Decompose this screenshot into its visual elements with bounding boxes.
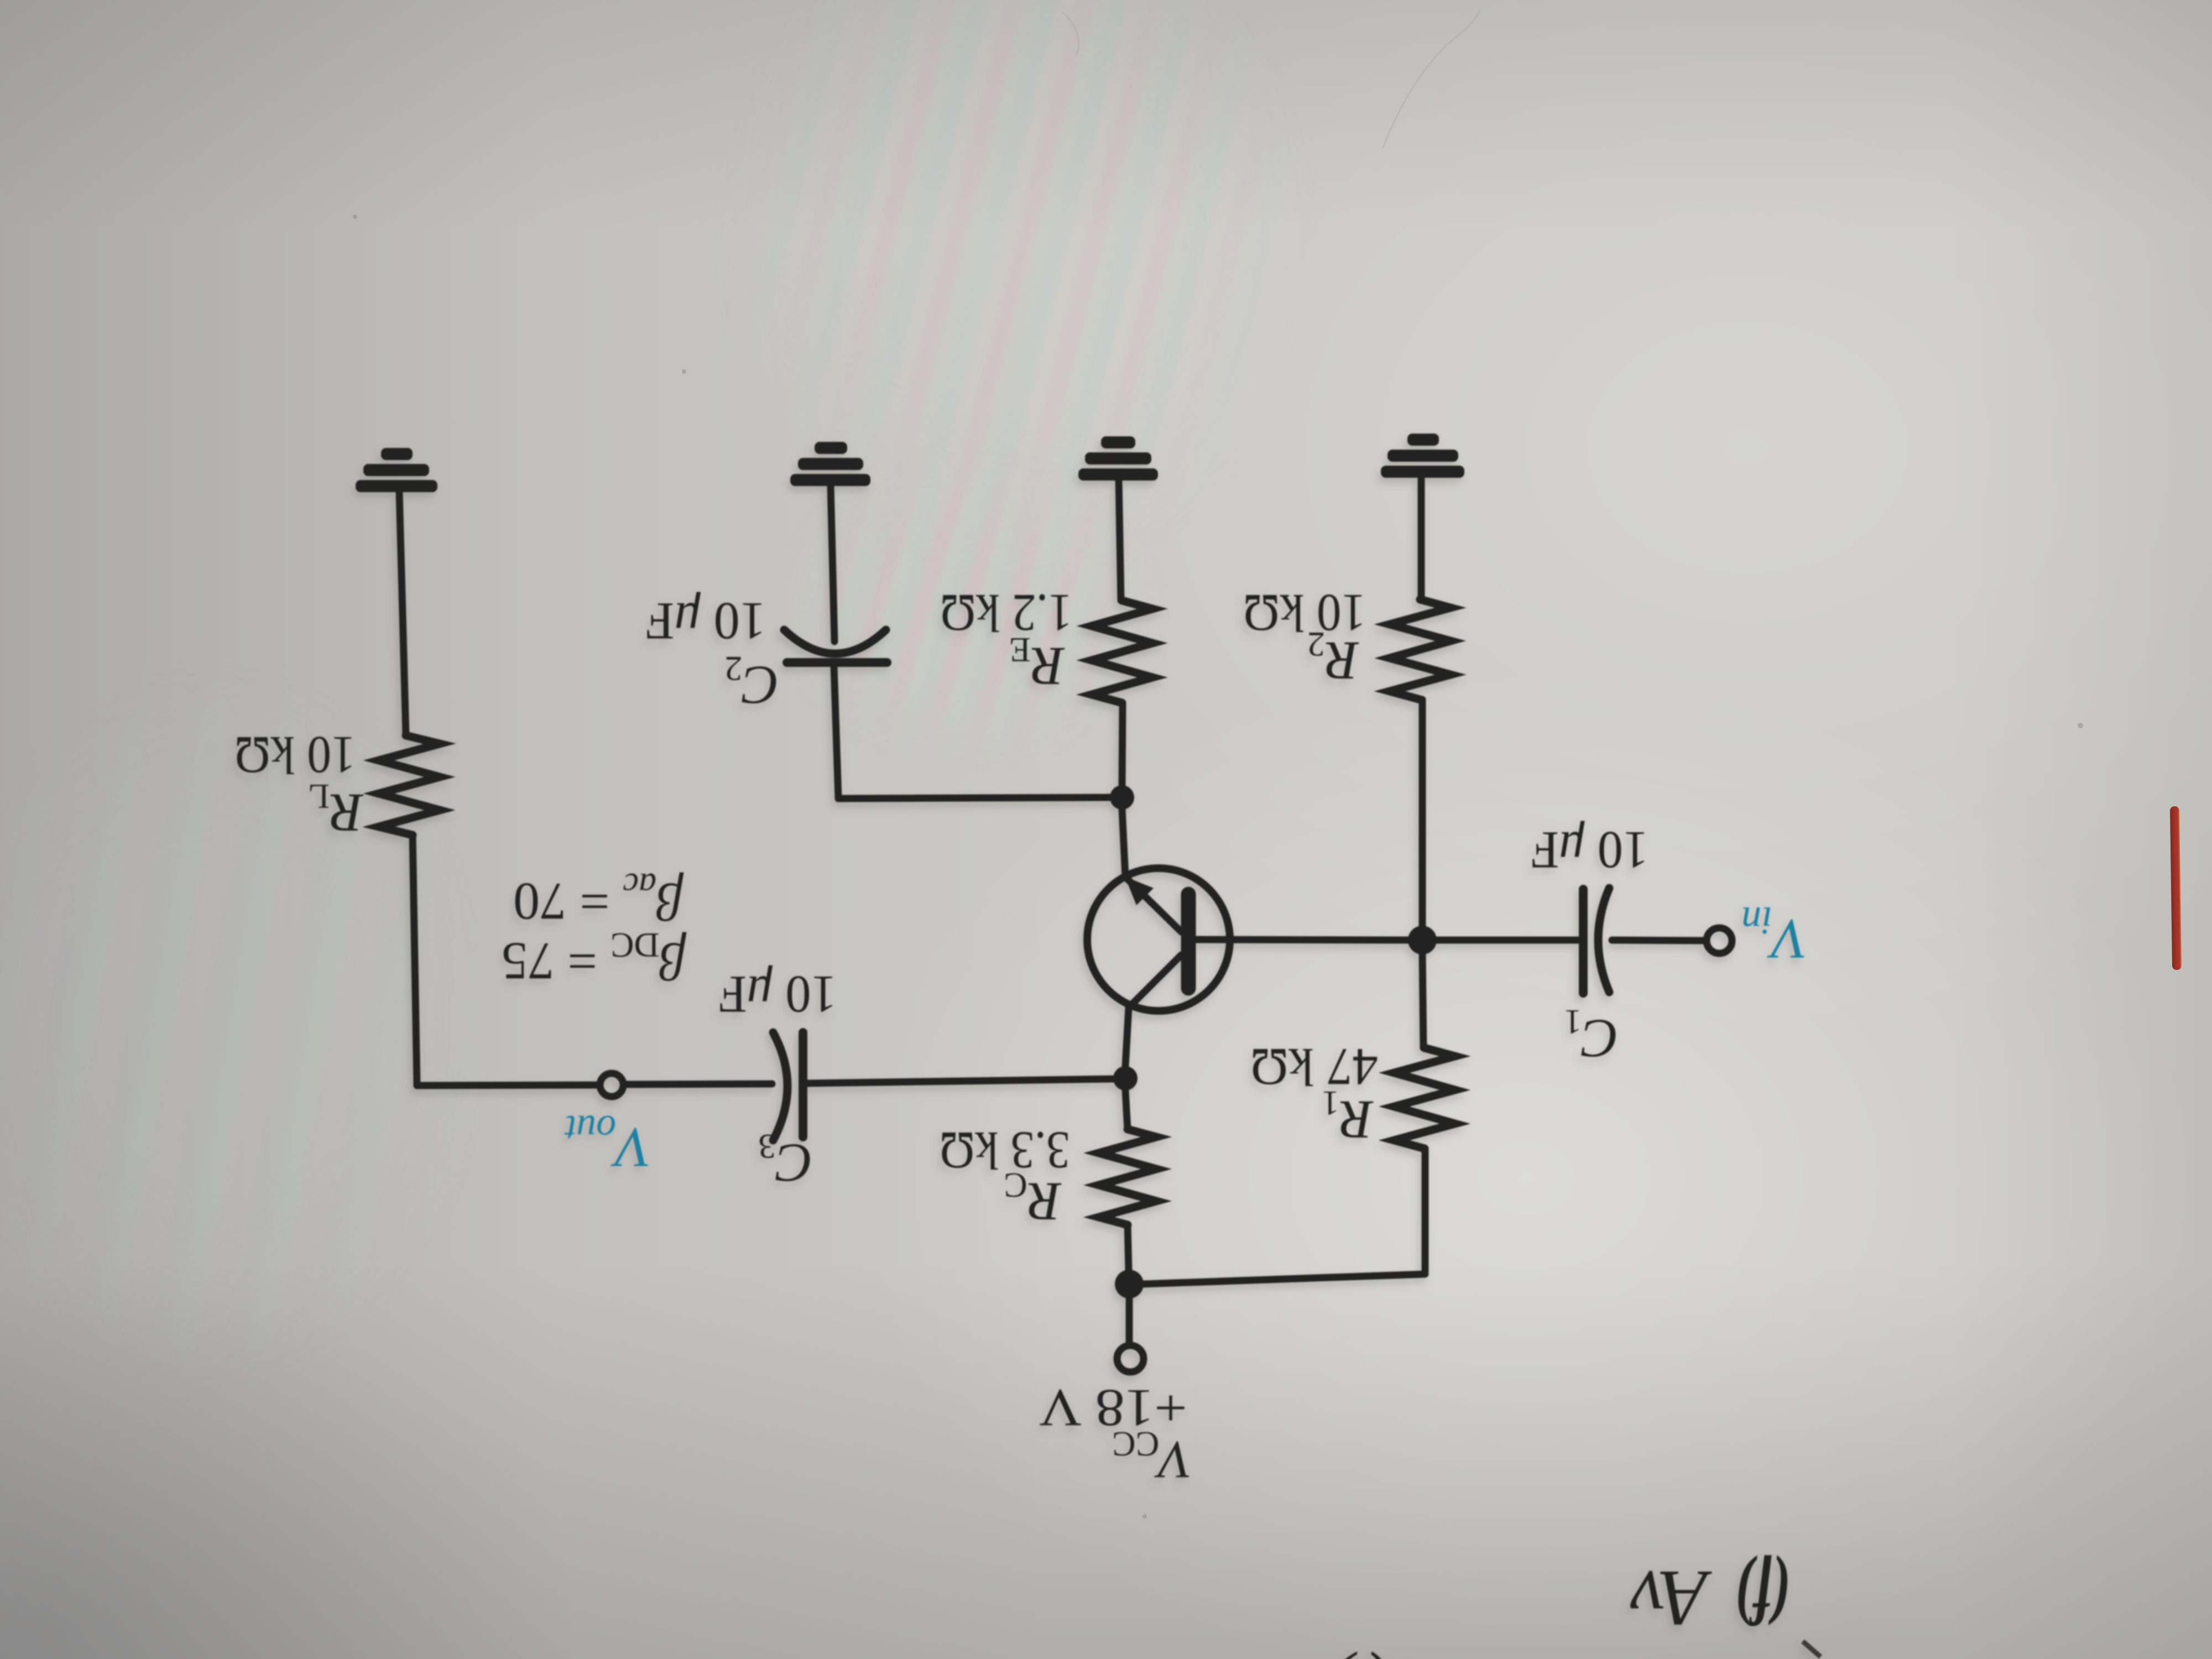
svg-text:(: ( <box>1359 1651 1389 1659</box>
svg-text:): ) <box>1328 1651 1358 1659</box>
svg-text:10 kΩ: 10 kΩ <box>1243 583 1366 643</box>
svg-text:(f): (f) <box>1735 1554 1790 1640</box>
svg-text:RL​: RL​ <box>308 777 364 844</box>
svg-text:βDC​ = 75: βDC​ = 75 <box>502 926 687 991</box>
svg-text:1.2 kΩ: 1.2 kΩ <box>940 583 1072 643</box>
svg-text:Av: Av <box>1630 1554 1712 1642</box>
svg-text:10 μF: 10 μF <box>1531 821 1648 880</box>
svg-text:C3​: C3​ <box>758 1127 813 1194</box>
svg-text:10 μF: 10 μF <box>718 965 837 1024</box>
svg-text:βac​ = 70: βac​ = 70 <box>513 866 684 931</box>
svg-text:10 μF: 10 μF <box>645 592 766 651</box>
svg-text:Vin​: Vin​ <box>1741 899 1807 971</box>
svg-text:Vout​: Vout​ <box>564 1107 651 1179</box>
svg-text:10 kΩ: 10 kΩ <box>234 726 356 785</box>
svg-text:47 kΩ: 47 kΩ <box>1250 1037 1378 1097</box>
svg-text:3.3 kΩ: 3.3 kΩ <box>940 1121 1070 1180</box>
svg-text:+18 V: +18 V <box>1039 1379 1187 1438</box>
svg-text:C2​: C2​ <box>724 649 779 716</box>
svg-text:C1​: C1​ <box>1564 1003 1619 1070</box>
